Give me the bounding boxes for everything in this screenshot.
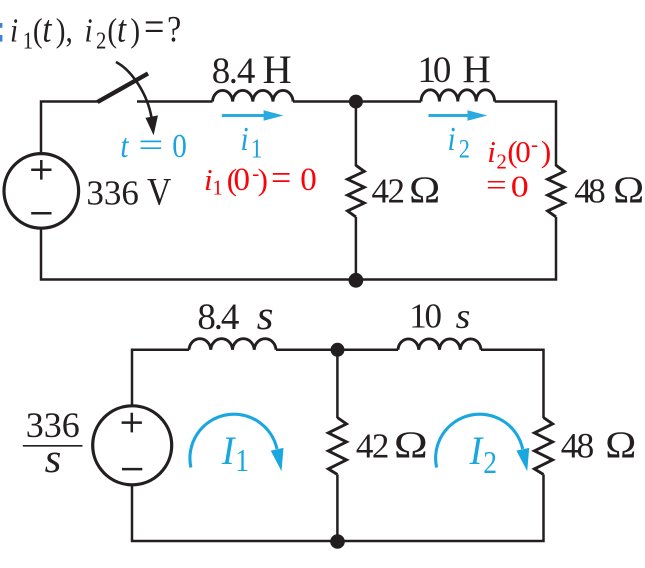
- mesh current loop I2 (cyan arc with arrowhead): [436, 414, 523, 467]
- V2 minus sign: [122, 468, 142, 471]
- wire: inductor L1 to node A: [293, 100, 356, 103]
- label i2 (cyan): [448, 120, 470, 164]
- wire: top-left corner to inductor L3: [132, 350, 189, 406]
- wire: inductor L3 to node C: [276, 349, 338, 352]
- fraction bar: [23, 445, 83, 447]
- node D (bottom middle junction dot): [330, 534, 345, 549]
- svg-text:Ω: Ω: [394, 425, 428, 467]
- svg-text:8.4: 8.4: [212, 51, 256, 92]
- switch closing arrow (curved, t=0): [116, 62, 152, 118]
- label 10 H: [418, 50, 452, 91]
- current arrow i1: [222, 114, 267, 117]
- svg-text:48: 48: [561, 426, 594, 466]
- svg-text:8.4: 8.4: [197, 297, 239, 338]
- svg-text:336: 336: [86, 174, 138, 213]
- wire: resistor R2 to bottom-right corner: [41, 217, 556, 280]
- mesh current loop I1 (cyan arc with arrowhead): [190, 414, 277, 467]
- wire: node C to inductor L4: [338, 349, 399, 352]
- svg-text:1: 1: [235, 443, 249, 478]
- switch SW1 blade (open): [98, 74, 149, 103]
- wire: switch to inductor L1: [137, 100, 213, 103]
- fraction denominator s: [45, 437, 62, 482]
- inductor L3 8.4s: [189, 339, 276, 350]
- label 336/s fraction numerator: [26, 405, 80, 445]
- svg-text:s: s: [257, 294, 274, 339]
- label I2 (cyan): [469, 429, 485, 473]
- svg-text:42: 42: [356, 427, 390, 466]
- node A (top middle junction dot): [349, 95, 363, 109]
- voltage source V1 336 V: [4, 154, 79, 229]
- inductor L1 8.4 H: [213, 90, 294, 101]
- label 48 ohm (bottom): [561, 426, 594, 466]
- wire: node A down to resistor R1: [355, 102, 358, 167]
- label 48 ohm (top): [574, 172, 605, 211]
- svg-text:s: s: [45, 437, 62, 482]
- node B (bottom middle junction dot): [349, 273, 364, 288]
- blue colon fragment at left edge: [0, 23, 2, 28]
- title: i1(t), i2(t) = ?: [10, 5, 181, 54]
- resistor R4 48 ohm (bottom circuit): [534, 418, 552, 475]
- svg-text:Ω: Ω: [409, 168, 440, 211]
- label t = 0 (cyan): [120, 127, 186, 165]
- wire: inductor L2 to top-right corner: [495, 102, 556, 167]
- svg-text:48: 48: [574, 172, 605, 211]
- svg-text:=: =: [138, 126, 163, 164]
- current arrow i2: [429, 114, 472, 117]
- resistor R3 42 ohm (bottom circuit): [328, 418, 346, 475]
- node C (top middle junction dot): [331, 343, 345, 357]
- svg-text:10: 10: [418, 50, 452, 91]
- wire: resistor R1 to bottom node B: [355, 217, 358, 280]
- svg-text:42: 42: [372, 172, 406, 211]
- svg-text:V: V: [147, 170, 171, 213]
- V2 plus sign: [122, 413, 142, 433]
- inductor L2 10 H: [421, 90, 495, 102]
- wire: node C down to resistor R3: [336, 350, 339, 418]
- svg-text:Ω: Ω: [605, 423, 636, 466]
- label 8.4 H: [212, 51, 256, 92]
- wire: resistor R4 to bottom-right corner: [132, 475, 544, 542]
- V1 minus sign: [31, 212, 51, 215]
- resistor R2 48 ohm (top circuit): [548, 165, 565, 217]
- label 10 s: [409, 296, 442, 335]
- voltage source V2 336/s: [93, 406, 172, 485]
- label 8.4 s: [197, 297, 239, 338]
- svg-text:s: s: [456, 296, 471, 336]
- svg-text:I: I: [469, 429, 485, 473]
- label 42 ohm (bottom): [356, 427, 390, 466]
- label i1(0-)=0 (red initial condition): [204, 157, 317, 199]
- V1 plus sign: [31, 160, 51, 180]
- wire: node A to inductor L2: [356, 100, 421, 103]
- wire: inductor L4 to top-right corner: [481, 350, 544, 418]
- svg-text:H: H: [263, 47, 292, 92]
- label 336 V: [86, 174, 138, 213]
- label I1 (cyan): [221, 429, 237, 473]
- svg-text:I: I: [221, 429, 237, 473]
- resistor R1 42 ohm (top circuit): [348, 165, 365, 217]
- svg-text:2: 2: [483, 445, 497, 480]
- svg-text:10: 10: [409, 296, 442, 335]
- svg-text:Ω: Ω: [613, 168, 644, 211]
- wire: top-left from source to switch: [41, 102, 99, 154]
- svg-text:H: H: [462, 47, 491, 91]
- wire: resistor R3 down to node D: [336, 475, 339, 542]
- inductor L4 10s: [398, 339, 481, 350]
- label i1 (cyan): [241, 120, 263, 164]
- label 42 ohm (top): [372, 172, 406, 211]
- label i2(0-) = 0 (red initial condition, two lines): [487, 132, 551, 174]
